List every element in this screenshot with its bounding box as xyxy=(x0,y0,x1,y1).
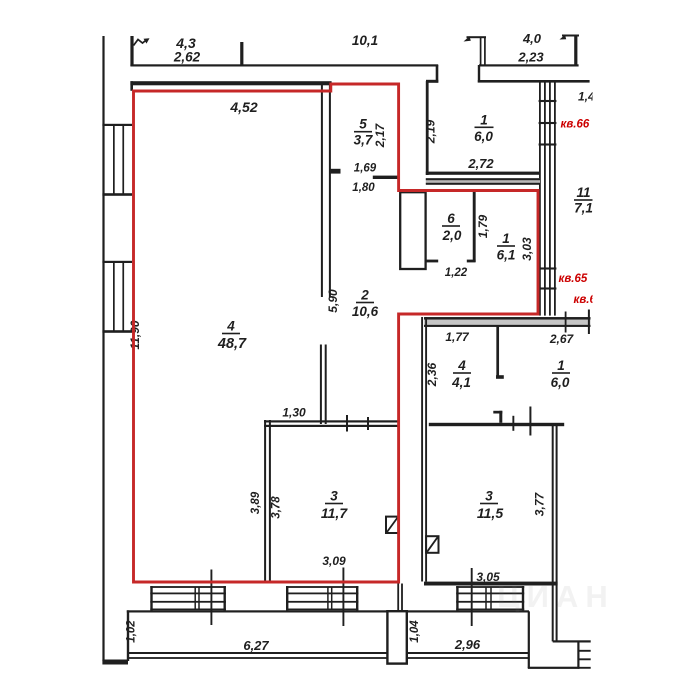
svg-text:5: 5 xyxy=(359,117,367,132)
wall: room 3(11,7) left wall xyxy=(264,420,266,582)
wall: room 3(11,5) right wall xyxy=(552,423,554,641)
wall: room 3(11,5) top wall stub xyxy=(499,411,502,423)
svg-text:1,80: 1,80 xyxy=(352,182,375,194)
balcony top-left: left rail xyxy=(130,36,133,66)
svg-text:1,02: 1,02 xyxy=(126,620,138,643)
svg-text:6,0: 6,0 xyxy=(474,129,493,144)
balcony 2,96: right edge xyxy=(528,611,530,668)
wall: band dimension tick B xyxy=(588,310,590,335)
svg-text:1,77: 1,77 xyxy=(445,330,470,344)
window: room 4 bottom window xyxy=(150,586,152,610)
wall: double partition under room 1(6,0) xyxy=(426,178,540,184)
svg-text:4,52: 4,52 xyxy=(229,99,257,115)
wall: right party wall crossbars xyxy=(539,100,557,102)
wall: bottom-right base line xyxy=(528,667,580,669)
dimension tick 3,09 xyxy=(342,568,344,627)
vent shaft symbol room 3(11,7) xyxy=(386,517,398,533)
window: room 4 left window lower xyxy=(102,261,132,263)
wall: band dimension tick A xyxy=(565,312,567,333)
window: room 3(11,7) bottom window xyxy=(286,586,288,610)
svg-text:4: 4 xyxy=(457,358,466,373)
wall: bottom-right corner xyxy=(553,640,591,642)
window: room 4 left window upper xyxy=(102,124,132,126)
wall: corridor wall door foot tick xyxy=(330,169,341,174)
wall: room3(11,7) door ticks xyxy=(346,415,348,432)
svg-text:1: 1 xyxy=(502,231,510,246)
svg-text:10,1: 10,1 xyxy=(352,33,378,48)
svg-text:кв.65: кв.65 xyxy=(559,273,588,285)
wall: room 1(6,0) bottom wall xyxy=(426,172,540,175)
svg-text:2,67: 2,67 xyxy=(549,332,575,346)
wall: neighbour double wall along boundary xyxy=(421,317,423,582)
balcony 6,27: left edge xyxy=(127,610,129,661)
svg-text:кв.66: кв.66 xyxy=(561,119,590,131)
wall: right party wall multi-line xyxy=(539,82,541,316)
balcony top-right: right hook xyxy=(562,35,579,37)
balcony top-right: left double rail xyxy=(480,37,482,66)
svg-text:4,0: 4,0 xyxy=(522,31,542,46)
svg-text:5,90: 5,90 xyxy=(326,289,340,313)
svg-text:2,17: 2,17 xyxy=(373,122,387,148)
balcony top-right: right rail xyxy=(574,36,577,66)
wall: bottom-right comb teeth xyxy=(578,650,590,652)
svg-text:3: 3 xyxy=(485,489,493,504)
svg-text:11: 11 xyxy=(576,185,590,200)
wall: band below hall (top line) xyxy=(424,317,591,320)
svg-text:3,78: 3,78 xyxy=(271,496,283,519)
wall: partition room6/room1(6,1) xyxy=(473,191,476,262)
svg-text:3,09: 3,09 xyxy=(322,554,346,568)
apartment boundary (red outline) xyxy=(134,84,539,582)
svg-text:2,36: 2,36 xyxy=(425,362,439,387)
svg-text:7,1: 7,1 xyxy=(574,201,593,216)
wall: step horizontal piece xyxy=(426,80,438,83)
svg-text:2,23: 2,23 xyxy=(517,50,544,65)
wall: top wall right section vertical joint xyxy=(478,65,480,83)
wall: room 3(11,5) top wall xyxy=(429,423,564,426)
balcony 6,27: top line xyxy=(127,610,388,612)
svg-text:2,19: 2,19 xyxy=(424,119,438,144)
window: room 3(11,5) bottom window xyxy=(456,586,458,610)
balcony top-left/terrace: bottom rail xyxy=(130,64,438,66)
dimension tick 3,05 xyxy=(471,568,473,626)
balcony divider pillar xyxy=(387,611,406,663)
wall: step at right end of terrace xyxy=(436,65,439,83)
vent shaft symbol room 3(11,5) xyxy=(426,536,438,553)
wall: room 3(11,5) door ticks xyxy=(512,416,514,431)
balcony top-right: left hook with arrow xyxy=(467,36,487,38)
wall: room 5 bottom wall xyxy=(373,176,399,179)
balcony base double line right xyxy=(407,652,529,654)
svg-text:2,96: 2,96 xyxy=(454,637,481,652)
svg-text:1,22: 1,22 xyxy=(445,267,468,279)
svg-text:2,72: 2,72 xyxy=(467,156,494,171)
wall: partition room4,1/room1(6,0) xyxy=(496,326,499,376)
wall: top-left corner joint xyxy=(130,81,133,91)
svg-text:6,1: 6,1 xyxy=(497,248,516,263)
svg-text:3,03: 3,03 xyxy=(520,237,534,261)
wall: band below hall (bottom line) xyxy=(424,325,591,327)
wall: left facade outer line xyxy=(102,36,104,661)
svg-text:3,77: 3,77 xyxy=(533,491,547,516)
svg-text:6,27: 6,27 xyxy=(243,638,269,653)
svg-text:3,89: 3,89 xyxy=(250,491,262,514)
balcony top-left: door tick xyxy=(240,42,243,66)
svg-text:3,7: 3,7 xyxy=(354,133,374,148)
balcony 2,96: top line xyxy=(407,610,529,612)
wall: divider below red corner xyxy=(397,584,399,613)
svg-text:2: 2 xyxy=(360,288,369,303)
svg-text:48,7: 48,7 xyxy=(217,336,247,352)
wall: room 3(11,7) top wall xyxy=(264,420,399,422)
balcony top-left: entrance arrow xyxy=(134,40,147,46)
balcony top-right: bottom rail xyxy=(479,64,579,66)
svg-text:1,04: 1,04 xyxy=(409,620,421,643)
wall: top wall of room 4 xyxy=(130,81,331,85)
wall: duct pillar foot tick xyxy=(426,260,438,263)
svg-text:6,0: 6,0 xyxy=(551,375,570,390)
svg-text:4,1: 4,1 xyxy=(451,375,471,390)
svg-text:1,30: 1,30 xyxy=(282,406,306,420)
wall: band below hall (gray core) xyxy=(424,320,591,326)
wall: bottom-left facade cap xyxy=(102,660,128,665)
svg-text:6: 6 xyxy=(447,211,455,226)
svg-text:4: 4 xyxy=(226,319,235,334)
svg-text:11,90: 11,90 xyxy=(128,320,142,349)
crop edge overlay xyxy=(593,0,700,560)
svg-text:3: 3 xyxy=(330,489,338,504)
wall: room 3(11,5) bottom wall xyxy=(424,582,558,586)
wall: partition foot xyxy=(496,375,504,379)
wall: room 1(6,0) left wall xyxy=(426,81,429,175)
svg-text:11,7: 11,7 xyxy=(321,505,348,521)
dimension tick (window 4) xyxy=(210,570,212,626)
svg-text:1: 1 xyxy=(557,358,565,373)
svg-text:1,79: 1,79 xyxy=(476,214,490,238)
svg-text:ЦИАН: ЦИАН xyxy=(497,579,615,614)
svg-text:2,62: 2,62 xyxy=(173,50,201,65)
svg-text:1: 1 xyxy=(480,113,488,128)
wall: corridor left wall (lower stub) xyxy=(320,345,322,425)
wall: partition foot tick xyxy=(467,260,476,263)
balcony base double line left xyxy=(129,652,388,654)
wall: duct pillar in room 6 xyxy=(400,192,425,269)
wall: corridor left wall (upper) xyxy=(321,85,323,297)
svg-text:1,4: 1,4 xyxy=(578,90,595,104)
svg-text:2,0: 2,0 xyxy=(442,228,462,243)
svg-text:11,5: 11,5 xyxy=(477,505,503,521)
svg-text:1,69: 1,69 xyxy=(354,163,377,175)
svg-text:10,6: 10,6 xyxy=(352,304,379,319)
wall: top wall right section xyxy=(478,80,590,83)
